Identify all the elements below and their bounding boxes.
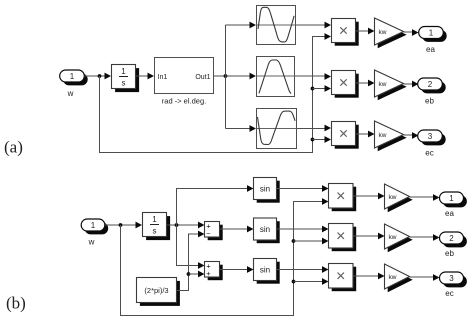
- sum block 1 (+,-) (diagram b): [205, 222, 223, 241]
- product block 1 (diagram b): [329, 184, 357, 212]
- label rad -> el.deg. (diagram a): [162, 97, 206, 106]
- wire: theta up to sin 1 (diagram b): [177, 185, 254, 225]
- svg-text:1: 1: [121, 67, 126, 76]
- gain kw 1 (diagram a): [375, 18, 407, 48]
- gain kw 3 (diagram a): [375, 121, 407, 151]
- junction: w branch (diagram a): [98, 74, 102, 78]
- svg-text:−: −: [206, 229, 211, 238]
- wire: sum 1 to sin 2 (diagram b): [220, 226, 254, 233]
- svg-text:kw: kw: [379, 29, 387, 36]
- label ec (diagram b): [445, 289, 453, 298]
- svg-text:+: +: [206, 269, 211, 278]
- svg-text:(2*pi)/3: (2*pi)/3: [144, 286, 168, 295]
- wire: lookup 1 to product 1 (diagram a): [296, 22, 332, 29]
- wire: gain 2 to output port eb (diagram b): [410, 234, 440, 241]
- svg-text:2: 2: [449, 234, 454, 243]
- wire: product 1 to gain 1 (diagram a): [356, 28, 375, 35]
- wire: integrator to sum 1 (diagram b): [167, 222, 205, 229]
- lookup table sine 2 (diagram a): [257, 57, 295, 97]
- constant (2*pi)/3 (diagram b): [137, 278, 180, 306]
- svg-text:s: s: [122, 79, 126, 88]
- wire: subsystem output to branch node (diagram a): [214, 75, 226, 77]
- label w (diagram b): [88, 238, 95, 247]
- svg-text:kw: kw: [379, 132, 387, 139]
- product block 2 (diagram b): [329, 224, 357, 252]
- svg-text:sin: sin: [260, 265, 270, 274]
- svg-text:1: 1: [429, 29, 434, 38]
- svg-text:kw: kw: [379, 81, 387, 88]
- wire: gain 3 to output port ec (diagram a): [404, 132, 419, 139]
- wire: w port to integrator (diagram b): [105, 222, 142, 229]
- gain kw 1 (diagram b): [385, 184, 413, 212]
- wire: theta to lookup 3 (diagram a): [226, 125, 257, 132]
- wire: gain 1 to output port ea (diagram b): [410, 194, 440, 201]
- wire: constant to sum 2 second input (diagram b): [189, 271, 205, 278]
- svg-text:w: w: [88, 238, 95, 247]
- output port 2 'eb' (diagram a): [418, 78, 446, 93]
- output port 1 'ea' (diagram a): [419, 27, 447, 42]
- label ec (diagram a): [425, 149, 433, 158]
- integrator 1/s (diagram b): [143, 213, 171, 241]
- junction: w branch (diagram b): [119, 223, 123, 227]
- product block 3 (diagram b): [329, 264, 357, 292]
- sin block 1 (diagram b): [254, 178, 280, 203]
- label eb (diagram b): [445, 249, 454, 258]
- junction: w to product 2 (diagram a): [311, 87, 315, 91]
- svg-text:ea: ea: [445, 209, 454, 218]
- gain kw 3 (diagram b): [385, 264, 413, 292]
- junction: constant to sum 2 (diagram b): [187, 272, 191, 276]
- output port 3 'ec' (diagram a): [418, 130, 446, 145]
- svg-text:3: 3: [449, 274, 454, 283]
- gain kw 2 (diagram b): [385, 224, 413, 252]
- gain kw 2 (diagram a): [375, 70, 407, 100]
- svg-text:ea: ea: [426, 45, 435, 54]
- wire: lookup 3 to product 3 (diagram a): [297, 125, 332, 132]
- subsystem rad -> el.deg. (diagram a): [155, 58, 214, 94]
- wire: constant up to sum 1 second input (diagram b): [177, 231, 205, 291]
- output port 2 'eb' (diagram b): [440, 232, 467, 247]
- wire: theta to lookup 1 (diagram a): [226, 22, 257, 29]
- label ea (diagram b): [445, 209, 454, 218]
- wire: product 3 to gain 3 (diagram b): [353, 273, 385, 280]
- label eb (diagram a): [425, 97, 434, 106]
- wire: theta to lookup 2 (diagram a): [226, 73, 257, 80]
- svg-text:In1: In1: [158, 74, 168, 81]
- junction: w to product 3 (diagram b): [292, 280, 296, 284]
- product block 1 (diagram a): [332, 19, 359, 46]
- svg-text:sin: sin: [260, 184, 270, 193]
- integrator 1/s (diagram a): [112, 65, 140, 93]
- product block 3 (diagram a): [332, 122, 359, 149]
- svg-text:kw: kw: [389, 274, 397, 281]
- svg-text:kw: kw: [389, 234, 397, 241]
- wire: product 3 to gain 3 (diagram a): [356, 131, 375, 138]
- wire: w to product 3 second input (diagram b): [294, 278, 329, 285]
- svg-text:1: 1: [70, 72, 75, 81]
- svg-text:rad -> el.deg.: rad -> el.deg.: [162, 97, 206, 106]
- svg-text:sin: sin: [260, 225, 270, 234]
- svg-text:Out1: Out1: [195, 74, 210, 81]
- svg-text:ec: ec: [425, 149, 433, 158]
- caption (a): [4, 138, 23, 157]
- junction: w to product 3 (diagram a): [311, 138, 315, 142]
- label w (diagram a): [67, 89, 74, 98]
- wire: sin 3 to product 3 (diagram b): [277, 266, 329, 273]
- wire: integrator to subsystem (diagram a): [136, 73, 155, 80]
- svg-text:s: s: [153, 227, 157, 236]
- wire: theta down to sum 2 first input (diagram b): [177, 225, 205, 269]
- wire: gain 3 to output port ec (diagram b): [410, 274, 440, 281]
- wire: product 2 to gain 2 (diagram a): [356, 80, 375, 87]
- wire: gain 2 to output port eb (diagram a): [404, 81, 419, 88]
- svg-text:1: 1: [449, 194, 454, 203]
- wire: w branch down along bottom and up to product column (diagram b): [121, 198, 329, 315]
- wire: w to product 2 second input (diagram a): [313, 85, 332, 92]
- lookup table sine 1 (diagram a): [257, 6, 296, 45]
- wire: gain 1 to output port ea (diagram a): [404, 29, 419, 36]
- svg-text:(b): (b): [6, 294, 26, 313]
- label ea (diagram a): [426, 45, 435, 54]
- junction: theta branch (diagram b): [175, 223, 179, 227]
- svg-text:w: w: [67, 89, 74, 98]
- svg-text:3: 3: [428, 132, 433, 141]
- wire: sin 2 to product 2 (diagram b): [277, 226, 329, 233]
- product block 2 (diagram a): [332, 71, 359, 98]
- sum block 2 (+,+) (diagram b): [205, 262, 223, 281]
- caption (b): [6, 294, 26, 313]
- svg-text:1: 1: [91, 221, 96, 230]
- svg-text:eb: eb: [445, 249, 454, 258]
- wire: sum 2 to sin 3 (diagram b): [220, 266, 254, 273]
- wire: sin 1 to product 1 (diagram b): [277, 185, 329, 192]
- input port 1 'w' (diagram b): [81, 219, 108, 234]
- svg-text:2: 2: [428, 80, 433, 89]
- junction: theta branch (diagram a): [224, 74, 228, 78]
- wire: w port to integrator (diagram a): [84, 73, 111, 80]
- wire: product 1 to gain 1 (diagram b): [353, 193, 385, 200]
- wire: product 2 to gain 2 (diagram b): [353, 233, 385, 240]
- output port 1 'ea' (diagram b): [440, 192, 467, 207]
- sin block 3 (diagram b): [254, 259, 280, 284]
- svg-text:kw: kw: [389, 194, 397, 201]
- wire: w to product 3 second input (diagram a): [313, 136, 332, 143]
- wire: theta vertical branch (diagram a): [225, 25, 227, 129]
- svg-text:eb: eb: [425, 97, 434, 106]
- wire: lookup 2 to product 2 (diagram a): [295, 73, 332, 80]
- output port 3 'ec' (diagram b): [440, 272, 467, 287]
- svg-text:1: 1: [152, 215, 157, 224]
- wire: w to product 2 second input (diagram b): [294, 238, 329, 245]
- svg-text:ec: ec: [445, 289, 453, 298]
- input port 1 'w' (diagram a): [60, 70, 88, 85]
- lookup table sine 3 (diagram a): [257, 109, 297, 149]
- junction: w to product 2 (diagram b): [292, 239, 296, 243]
- wire: w branch down and along bottom to multiplier column (diagram a): [100, 33, 332, 152]
- sin block 2 (diagram b): [254, 218, 280, 243]
- svg-text:(a): (a): [4, 138, 23, 157]
